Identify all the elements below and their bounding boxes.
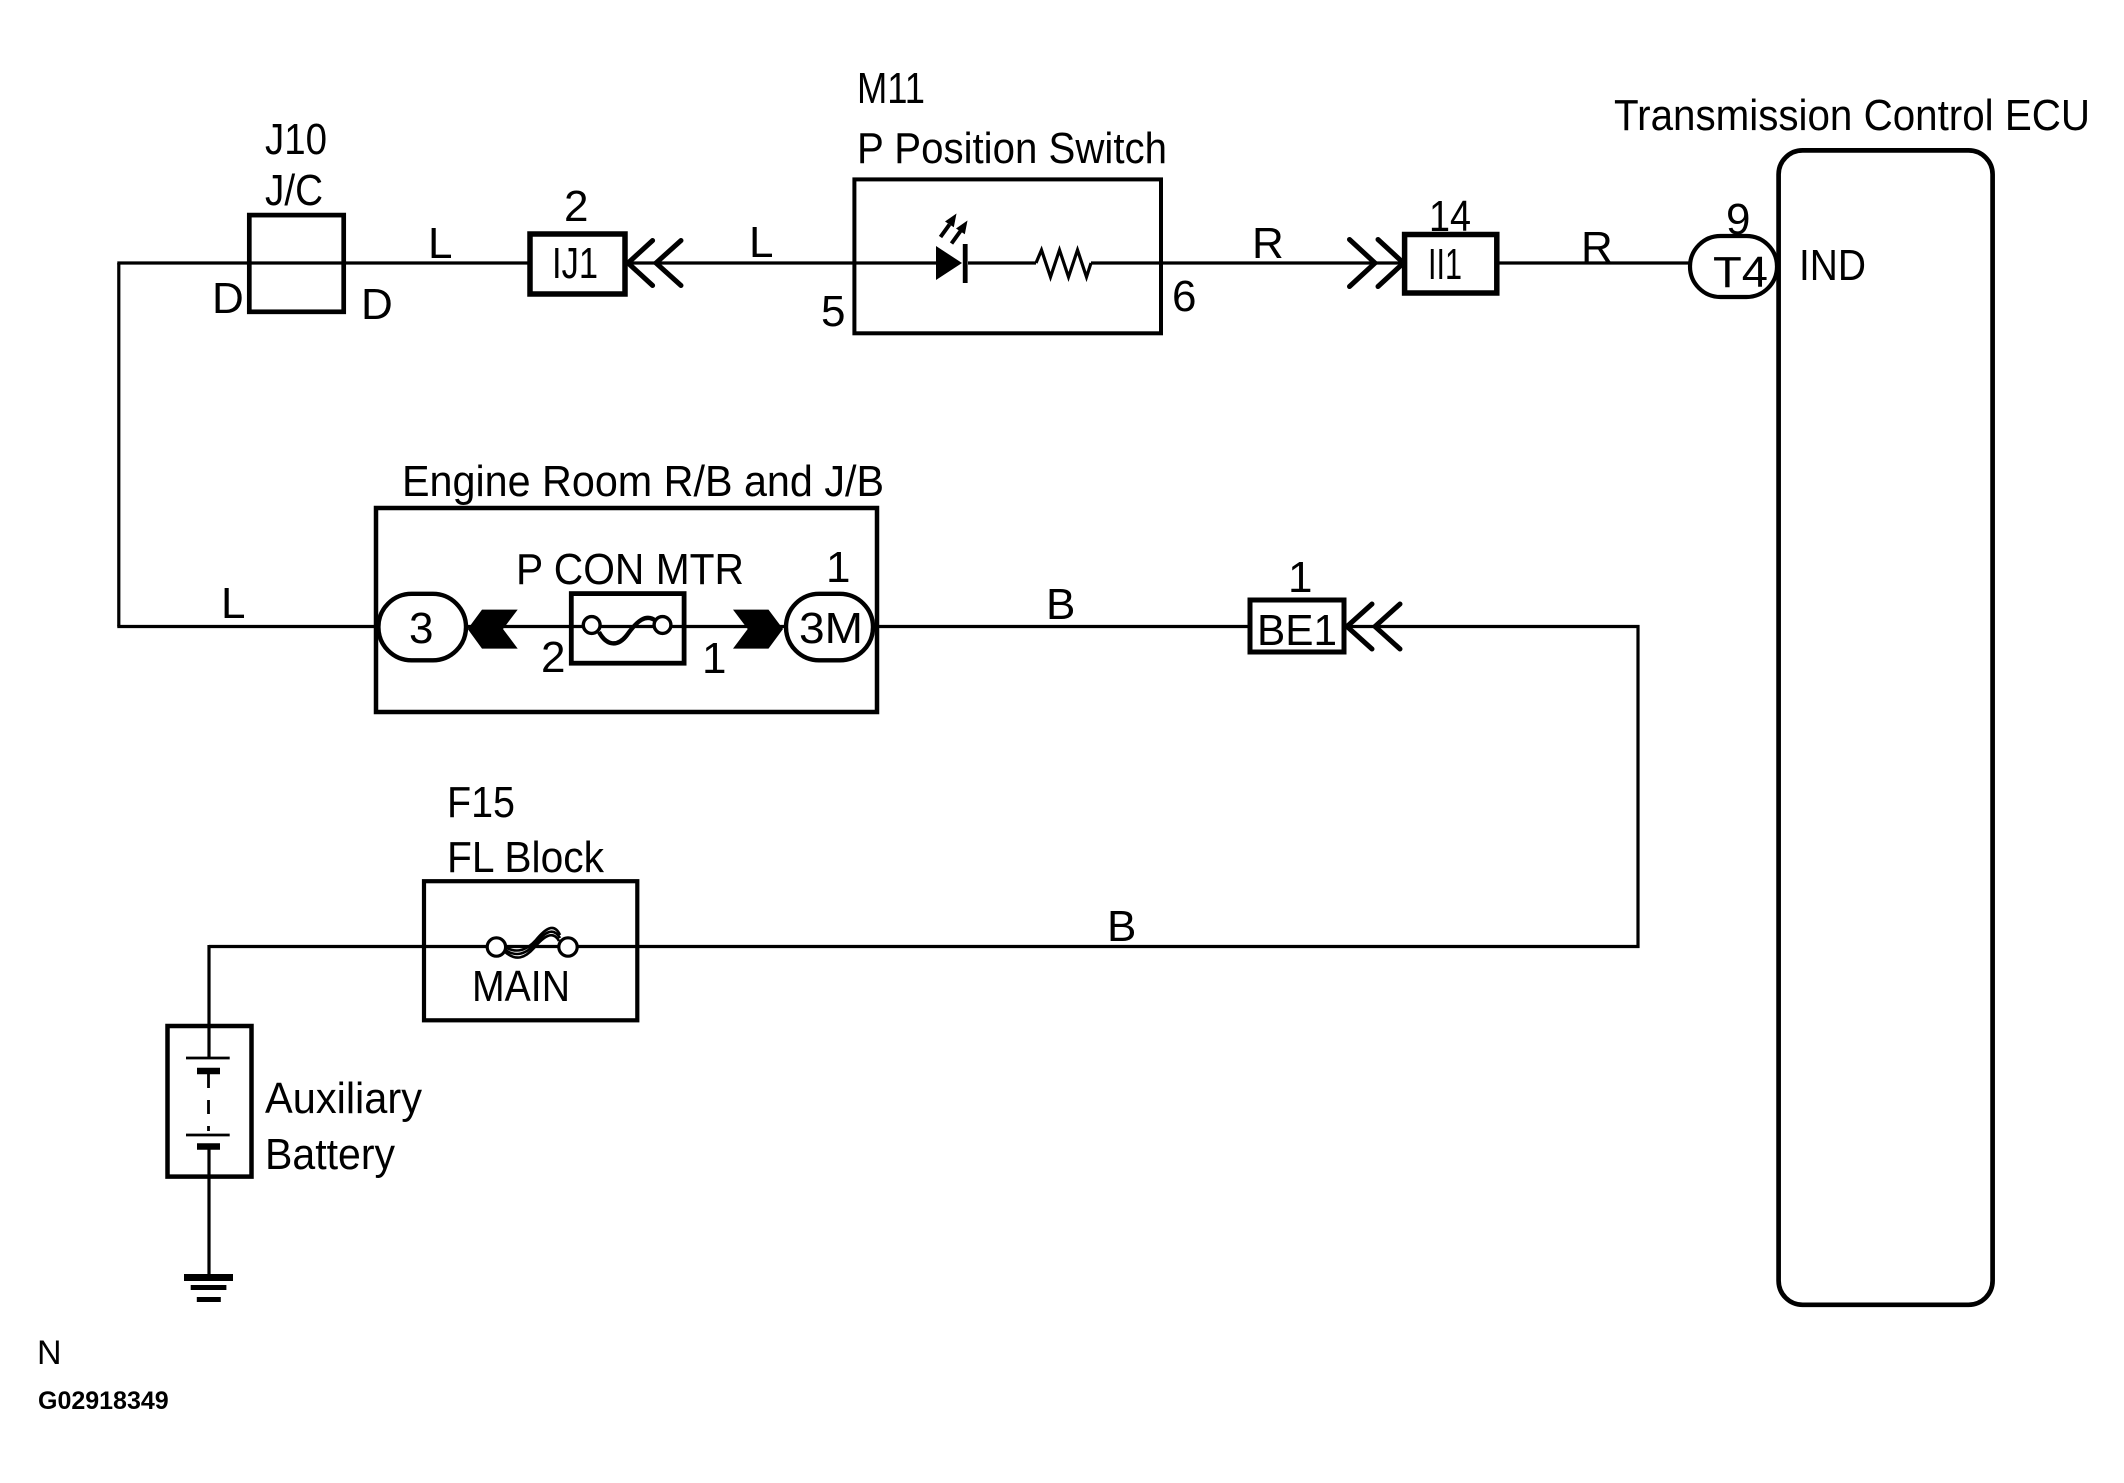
svg-text:D: D xyxy=(361,280,393,329)
svg-text:3: 3 xyxy=(409,604,433,653)
svg-text:Auxiliary: Auxiliary xyxy=(265,1074,422,1123)
connector chevrons female at BE1 xyxy=(1347,604,1400,649)
connector chevrons male to II1 xyxy=(1350,240,1404,287)
svg-text:2: 2 xyxy=(564,182,588,231)
svg-text:IND: IND xyxy=(1799,241,1866,290)
battery plate long + xyxy=(186,1057,230,1060)
svg-text:L: L xyxy=(749,218,773,267)
svg-text:IJ1: IJ1 xyxy=(552,239,598,288)
svg-text:B: B xyxy=(1046,580,1075,629)
svg-text:II1: II1 xyxy=(1428,240,1462,289)
wire LED bar to resistor xyxy=(968,261,1036,264)
svg-text:L: L xyxy=(221,579,245,628)
wire battery top drop xyxy=(207,945,210,1058)
battery dashed center link xyxy=(207,1074,210,1131)
wire bottom B from battery drop to right vertical xyxy=(209,945,1640,948)
wire BE1 to right vertical xyxy=(1344,625,1640,628)
ground xyxy=(184,1278,233,1300)
svg-text:R: R xyxy=(1252,219,1284,268)
wire II1 to T4 xyxy=(1497,261,1692,264)
connector oval T4 xyxy=(1690,236,1777,297)
svg-text:L: L xyxy=(428,219,452,268)
Auxiliary Battery xyxy=(168,1026,252,1177)
svg-text:R: R xyxy=(1581,223,1613,272)
svg-text:J/C: J/C xyxy=(265,166,323,215)
connector chevrons female at IJ1 xyxy=(628,241,681,286)
svg-text:M11: M11 xyxy=(857,64,925,113)
LED light arrows xyxy=(941,214,968,244)
connector oval 3M xyxy=(786,594,873,661)
svg-text:MAIN: MAIN xyxy=(472,962,570,1011)
svg-text:Transmission Control ECU: Transmission Control ECU xyxy=(1614,91,2090,140)
svg-text:P CON MTR: P CON MTR xyxy=(516,545,744,594)
resistor inside M11 xyxy=(1036,250,1091,277)
LED D1 inside M11 xyxy=(936,214,968,284)
wire 3M through box edge to BE1 xyxy=(872,625,1250,628)
svg-text:1: 1 xyxy=(702,634,726,683)
battery plate short - xyxy=(197,1068,220,1075)
svg-text:FL Block: FL Block xyxy=(447,833,605,882)
wire top L/R path xyxy=(117,263,1692,1277)
connector oval 3 xyxy=(378,594,466,661)
wire top from left vertical through J10 to IJ1 xyxy=(117,261,530,264)
svg-text:D: D xyxy=(212,274,244,323)
black arrow left at oval 3 xyxy=(468,610,518,649)
battery plate long 2 xyxy=(186,1134,230,1137)
svg-text:P Position Switch: P Position Switch xyxy=(857,124,1167,173)
fusible link MAIN element xyxy=(504,928,560,958)
svg-text:1: 1 xyxy=(826,543,850,592)
svg-text:T4: T4 xyxy=(1713,248,1768,297)
svg-text:5: 5 xyxy=(821,287,845,336)
battery plate short 2 xyxy=(197,1143,220,1150)
wire oval 3 to fuse to oval 3M xyxy=(466,625,786,628)
fuse box P CON MTR xyxy=(571,594,684,664)
FL Block box xyxy=(424,881,637,1020)
black arrow right at oval 3M xyxy=(733,610,783,649)
svg-text:J10: J10 xyxy=(265,115,327,164)
svg-text:N: N xyxy=(37,1334,62,1372)
svg-text:6: 6 xyxy=(1172,272,1196,321)
svg-text:Engine Room R/B and J/B: Engine Room R/B and J/B xyxy=(402,457,884,506)
wire left vertical from top wire to middle wire xyxy=(117,263,120,627)
svg-text:G02918349: G02918349 xyxy=(38,1387,169,1415)
junction connector J10 J/C box xyxy=(249,215,343,312)
svg-text:3M: 3M xyxy=(799,604,863,653)
wire right vertical down xyxy=(1636,625,1639,948)
svg-text:Battery: Battery xyxy=(265,1130,395,1179)
svg-text:BE1: BE1 xyxy=(1257,606,1337,655)
svg-text:2: 2 xyxy=(541,633,565,682)
wire IJ1 to M11 xyxy=(625,261,854,264)
wire inside M11 to LED xyxy=(854,261,936,264)
wire battery bottom to ground xyxy=(207,1149,210,1277)
svg-text:F15: F15 xyxy=(447,778,515,827)
wire middle B/L path from left vertical to oval 3 xyxy=(117,625,380,628)
wire resistor to II1 xyxy=(1091,261,1405,264)
svg-text:B: B xyxy=(1107,902,1136,951)
fuse element xyxy=(583,617,671,644)
svg-text:1: 1 xyxy=(1288,553,1312,602)
